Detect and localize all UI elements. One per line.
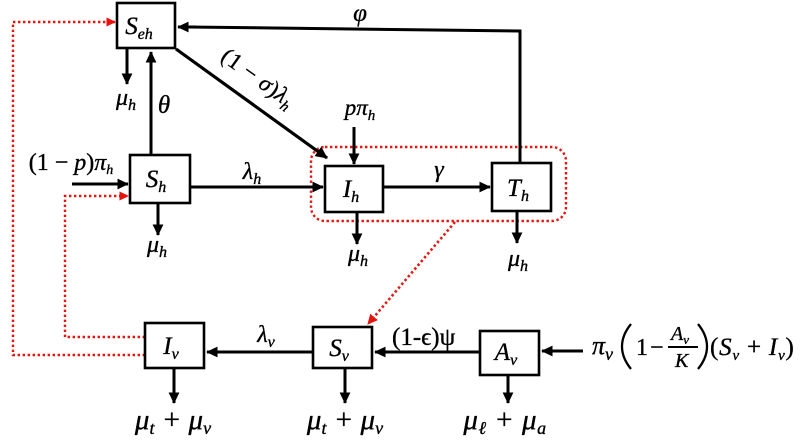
box Sh: [130, 155, 190, 203]
svg-text:λh: λh: [242, 159, 261, 188]
arrow mu_t+mu_v out of Sv: [344, 368, 347, 403]
svg-text:Av: Av: [669, 323, 689, 347]
svg-text:K: K: [674, 350, 690, 372]
box Th: [492, 163, 551, 211]
svg-text:λv: λv: [256, 322, 275, 351]
box Av: [480, 331, 539, 375]
svg-text:pπh: pπh: [343, 95, 376, 124]
arrow gamma from Ih to Th: [383, 186, 490, 189]
svg-text:μh: μh: [507, 246, 528, 275]
arrow theta from Sh to Seh: [150, 52, 153, 155]
box Iv: [145, 323, 204, 368]
svg-text:γ: γ: [434, 157, 444, 183]
arrow lambda_v from Sv to Iv: [207, 351, 313, 354]
box Seh: [117, 3, 175, 48]
wire phi from Th top to Seh: [188, 27, 520, 163]
arrow mu_h out of Sh: [157, 203, 160, 235]
arrow mu_h out of Ih: [356, 212, 359, 244]
box Ih: [325, 166, 383, 212]
svg-text:−: −: [650, 335, 664, 361]
arrow lambda_h from Sh to Ih: [190, 186, 323, 189]
svg-text:(Sv + Iv): (Sv + Iv): [710, 334, 795, 364]
svg-text:πv: πv: [592, 331, 613, 364]
arrow (1-eps)psi from Av to Sv: [375, 351, 480, 354]
red dotted path Iv to Seh: [13, 22, 145, 355]
box Sv: [313, 327, 372, 368]
svg-text:1: 1: [636, 335, 648, 361]
svg-text:μℓ + μa: μℓ + μa: [462, 404, 546, 438]
svg-text:μt + μv: μt + μv: [306, 404, 383, 438]
svg-text:μh: μh: [146, 232, 167, 261]
svg-text:(1-ϵ)ψ: (1-ϵ)ψ: [392, 324, 456, 351]
svg-text:(1 − p)πh: (1 − p)πh: [29, 150, 114, 178]
arrow mu_l+mu_a out of Av: [507, 375, 510, 403]
arrow (1-sigma)lambda_h from Seh to Ih: [176, 49, 327, 158]
svg-text:μh: μh: [347, 241, 368, 270]
svg-text:(1 − σ)λh: (1 − σ)λh: [214, 43, 300, 116]
arrow mu_t+mu_v out of Iv: [173, 368, 176, 403]
svg-text:μt + μv: μt + μv: [134, 404, 211, 438]
red dashed treatment box around Ih and Th: [311, 147, 566, 221]
arrow mu_h out of Th: [516, 211, 519, 243]
arrowhead phi into Seh: [178, 26, 196, 29]
red dotted arrow treatment box to Sv: [368, 222, 455, 324]
red dotted path Iv to Sh: [65, 196, 145, 337]
svg-text:φ: φ: [353, 0, 367, 27]
arrow mu_h out of Seh: [126, 48, 129, 84]
label recruitment formula pi_v(1-Av/K)(Sv+Iv): [592, 323, 795, 372]
arrow p pi_h into Ih: [353, 127, 356, 164]
svg-text:μh: μh: [115, 85, 136, 114]
arrow recruitment into Av: [542, 350, 583, 353]
svg-text:θ: θ: [158, 92, 170, 119]
arrow (1-p)pi_h into Sh: [72, 183, 128, 186]
